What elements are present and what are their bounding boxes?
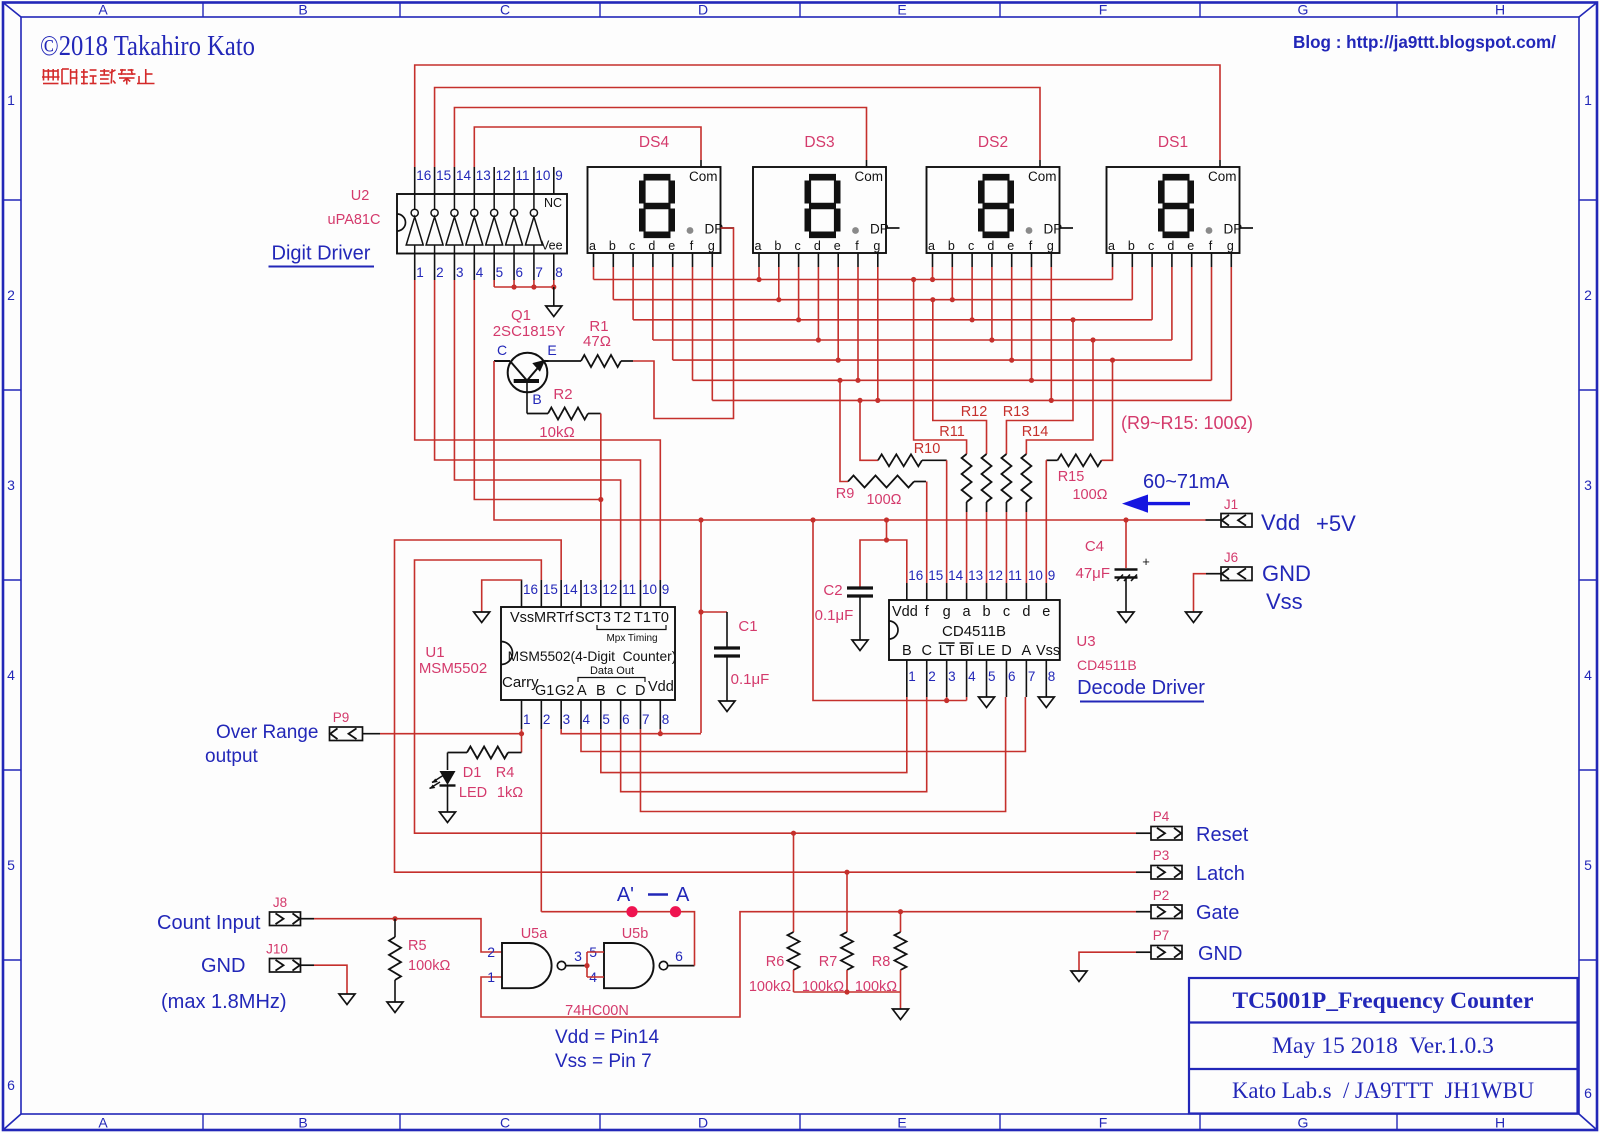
svg-text:5: 5 [496, 265, 504, 280]
junction dots on Vdd rail [698, 517, 1128, 522]
svg-text:Vdd: Vdd [648, 679, 674, 695]
wire data C: U1 pin6 to U3 pin2 [621, 697, 927, 792]
wire P7 to ground [1071, 952, 1136, 981]
wire U2 pin 15 to DS2 Com [435, 88, 1040, 168]
svg-text:Digit Driver: Digit Driver [272, 243, 371, 265]
svg-text:T0: T0 [652, 610, 669, 626]
svg-text:e: e [668, 239, 675, 253]
connector J1 Vdd [1206, 497, 1253, 527]
svg-text:U3: U3 [1076, 633, 1095, 650]
transistor Q1 2SC1815Y [494, 353, 549, 414]
IC U1 MSM5502 4-digit counter [501, 607, 676, 700]
resistor R15 100ohm (e) [1046, 360, 1112, 503]
svg-text:U5b: U5b [622, 926, 649, 942]
svg-text:A: A [577, 683, 587, 699]
svg-text:9: 9 [555, 168, 563, 183]
svg-text:Vee: Vee [541, 239, 563, 253]
svg-text:D: D [698, 1115, 708, 1131]
svg-text:16: 16 [416, 168, 431, 183]
wire Vdd rail to LT/BI bus [813, 520, 967, 703]
resistor R10 100ohm (g) [860, 400, 947, 466]
segment bus b [613, 297, 1132, 302]
svg-text:P2: P2 [1153, 888, 1170, 903]
svg-text:d: d [814, 239, 821, 253]
7-segment display DS3 [753, 134, 900, 253]
svg-text:LT: LT [939, 643, 955, 659]
capacitor C4 47uF electrolytic [1076, 520, 1150, 612]
svg-text:GND: GND [201, 955, 245, 977]
wire P9 to U1 carry [380, 729, 524, 753]
svg-text:16: 16 [908, 568, 923, 583]
svg-text:11: 11 [516, 168, 530, 183]
svg-text:14: 14 [456, 168, 472, 183]
svg-text:a: a [1108, 239, 1115, 253]
svg-text:+: + [1142, 554, 1150, 569]
svg-text:B: B [596, 683, 606, 699]
wire U2 pin 14 to DS3 Com [454, 108, 866, 168]
title block [1189, 978, 1578, 1114]
IC U3 CD4511B decode driver [889, 600, 1060, 660]
wires DS4 pins to segment bus [594, 267, 713, 400]
svg-text:J6: J6 [1224, 550, 1238, 565]
svg-text:a: a [755, 239, 762, 253]
wire U2 pin 16 to DS1 Com [415, 65, 1220, 167]
svg-text:U5a: U5a [521, 926, 549, 942]
svg-text:R14: R14 [1022, 424, 1049, 440]
segment bus f [693, 378, 1212, 383]
svg-text:J10: J10 [266, 942, 288, 957]
svg-text:9: 9 [662, 582, 670, 597]
svg-text:8: 8 [662, 712, 670, 727]
svg-text:5: 5 [7, 857, 15, 873]
svg-text:Blog : http://ja9ttt.blogspot.: Blog : http://ja9ttt.blogspot.com/ [1293, 32, 1556, 52]
svg-text:R5: R5 [408, 938, 427, 954]
ground at U3 LE pin5 [979, 697, 995, 708]
svg-text:A': A' [617, 884, 634, 906]
svg-text:DS3: DS3 [804, 134, 834, 151]
svg-text:3: 3 [456, 265, 464, 280]
svg-text:6: 6 [675, 948, 683, 964]
svg-text:3: 3 [563, 712, 571, 727]
svg-text:10: 10 [535, 168, 550, 183]
wire U1 G2 + Vdd pin to Vdd net [561, 729, 701, 736]
svg-text:DP: DP [1224, 222, 1243, 237]
svg-text:7: 7 [535, 265, 543, 280]
svg-text:b: b [982, 604, 990, 620]
GND label (J10) [201, 955, 245, 977]
svg-text:R2: R2 [553, 386, 572, 403]
svg-text:Latch: Latch [1196, 863, 1245, 885]
svg-text:d: d [987, 239, 994, 253]
svg-text:C1: C1 [738, 618, 757, 635]
svg-text:U2: U2 [351, 188, 370, 204]
svg-text:D: D [635, 683, 645, 699]
capacitor C2 0.1uF [815, 582, 873, 640]
svg-text:13: 13 [968, 568, 983, 583]
svg-text:2SC1815Y: 2SC1815Y [493, 323, 566, 340]
wire U2 pin3 to U1 T2 [454, 280, 620, 580]
svg-text:R4: R4 [496, 765, 515, 781]
segment bus e [673, 358, 1192, 363]
ground at C2 [852, 640, 868, 651]
svg-text:A: A [98, 2, 108, 18]
svg-text:R10: R10 [914, 441, 941, 457]
svg-text:A: A [1022, 643, 1032, 659]
wire R11 to U3 a [966, 512, 968, 583]
resistor R7 100k (latch) [802, 872, 853, 995]
U1 pin stubs and numbers [522, 580, 670, 729]
svg-text:12: 12 [602, 582, 617, 597]
resistor R12 100ohm (b) [933, 300, 992, 512]
svg-text:C: C [500, 1115, 510, 1131]
svg-text:g: g [873, 239, 880, 253]
svg-text:15: 15 [928, 568, 943, 583]
svg-text:C2: C2 [823, 582, 842, 599]
svg-text:DS4: DS4 [639, 134, 670, 151]
svg-text:A: A [676, 884, 690, 906]
svg-text:CD4511B: CD4511B [942, 623, 1006, 640]
segment bus g [712, 398, 1231, 403]
connector P2 Gate [1136, 888, 1239, 924]
svg-text:D1: D1 [463, 765, 482, 781]
DS4 segment pin stubs [594, 253, 713, 267]
wire U2 pin1 to U1 T0 [415, 280, 661, 580]
svg-text:4: 4 [7, 667, 15, 683]
svg-text:a: a [928, 239, 935, 253]
svg-text:SC: SC [575, 610, 595, 626]
svg-text:Vss: Vss [510, 610, 534, 626]
resistor R5 100k (count input) [389, 919, 450, 1002]
blog url text [1293, 32, 1556, 52]
svg-text:14: 14 [948, 568, 964, 583]
svg-text:G1: G1 [535, 683, 554, 699]
svg-text:BI: BI [960, 643, 974, 659]
svg-text:f: f [690, 239, 694, 253]
U3 pin stubs and numbers [907, 568, 1056, 697]
svg-text:3: 3 [1584, 477, 1592, 493]
svg-text:2: 2 [928, 669, 936, 684]
wire R14 to U3 d [1025, 512, 1027, 583]
svg-text:Gate: Gate [1196, 902, 1239, 924]
svg-text:g: g [708, 239, 715, 253]
Vdd Vss pin note [555, 1027, 659, 1072]
svg-text:1: 1 [908, 669, 916, 684]
svg-text:d: d [1022, 604, 1030, 620]
copyright text [40, 31, 255, 62]
svg-text:H: H [1495, 2, 1505, 18]
svg-text:Vdd: Vdd [1261, 510, 1300, 535]
svg-text:T3: T3 [594, 610, 611, 626]
svg-text:G: G [1298, 2, 1309, 18]
max 1.8MHz label [161, 991, 287, 1013]
svg-text:P7: P7 [1153, 928, 1170, 943]
svg-text:2: 2 [1584, 287, 1592, 303]
svg-text:May 15 2018 Ver.1.0.3: May 15 2018 Ver.1.0.3 [1272, 1033, 1494, 1058]
LED D1 [430, 765, 488, 812]
svg-text:J1: J1 [1224, 497, 1238, 512]
svg-text:Com: Com [1028, 169, 1057, 184]
ground at C1 [719, 701, 735, 712]
svg-text:F: F [1099, 2, 1108, 18]
svg-text:47Ω: 47Ω [583, 333, 611, 350]
svg-text:12: 12 [496, 168, 511, 183]
U1 Vss pin16 to ground [474, 580, 522, 623]
NAND gate U5b [589, 926, 694, 988]
svg-text:13: 13 [476, 168, 491, 183]
connector J8 count input [270, 895, 315, 926]
svg-text:6: 6 [516, 265, 524, 280]
svg-text:11: 11 [622, 582, 636, 597]
svg-text:4: 4 [476, 265, 484, 280]
wire Gate line to U5a input1 [481, 909, 1136, 1017]
U2 pin stubs and numbers [415, 167, 563, 280]
DS2 segment pin stubs [933, 253, 1052, 267]
wire U5b out to A jumper to U1 G1 [541, 729, 694, 966]
svg-text:P4: P4 [1153, 809, 1170, 824]
Vdd +5V labels [1261, 510, 1356, 536]
svg-text:0.1μF: 0.1μF [731, 671, 770, 688]
svg-text:+5V: +5V [1316, 511, 1356, 536]
svg-text:Vdd: Vdd [892, 604, 918, 620]
NAND gate U5a [487, 926, 587, 988]
svg-text:10kΩ: 10kΩ [539, 424, 574, 441]
ground at J6 [1186, 612, 1202, 623]
connector J10 GND [266, 942, 314, 973]
resistor R13 100ohm (c) [1001, 320, 1073, 512]
wire R12 to U3 b [986, 512, 988, 583]
svg-text:5: 5 [602, 712, 610, 727]
svg-text:R7: R7 [819, 954, 838, 970]
svg-text:14: 14 [563, 582, 579, 597]
svg-text:D: D [1001, 643, 1011, 659]
ground at D1 [440, 812, 456, 823]
wire data D: U1 pin7 to U3 pin6 [640, 697, 1005, 812]
svg-text:2: 2 [7, 287, 15, 303]
wire Reset line to U1 MR [415, 560, 1137, 836]
no-reproduction (CJK) red text approximated [42, 69, 155, 85]
svg-text:NC: NC [544, 196, 562, 210]
svg-text:MSM5502: MSM5502 [419, 660, 487, 677]
wire R1 to DS4 DP [633, 228, 734, 419]
7-segment display DS2 [927, 134, 1074, 253]
svg-text:(R9~R15: 100Ω): (R9~R15: 100Ω) [1121, 413, 1253, 433]
svg-text:1: 1 [1584, 92, 1592, 108]
U3 labels [1076, 633, 1136, 673]
current annotation 60~71mA with arrow [1122, 471, 1230, 513]
svg-text:Q1: Q1 [511, 307, 531, 324]
svg-text:d: d [648, 239, 655, 253]
svg-text:R8: R8 [872, 954, 891, 970]
svg-text:2: 2 [436, 265, 444, 280]
svg-text:DP: DP [1044, 222, 1063, 237]
svg-text:H: H [1495, 1115, 1505, 1131]
svg-text:10: 10 [642, 582, 657, 597]
resistor R1 47ohm [549, 318, 634, 367]
svg-text:0.1μF: 0.1μF [815, 607, 854, 624]
resistor R9 100ohm (f) [836, 380, 926, 508]
svg-text:e: e [1042, 604, 1050, 620]
wire U2 pin4 to U1 T3 junction [474, 280, 603, 502]
svg-text:Count Input: Count Input [157, 912, 261, 934]
svg-text:R11: R11 [939, 424, 965, 440]
svg-text:E: E [897, 1115, 906, 1131]
Count Input label [157, 912, 261, 934]
svg-text:c: c [794, 239, 800, 253]
svg-text:c: c [629, 239, 635, 253]
svg-text:5: 5 [1584, 857, 1592, 873]
svg-text:C: C [616, 683, 626, 699]
U2 pins 5-8 ground bus [494, 280, 556, 306]
svg-text:7: 7 [642, 712, 650, 727]
wire U2 pin 13 to DS4 Com [474, 127, 701, 167]
wires DS2 pins to segment bus [933, 267, 1052, 400]
segment bus c [633, 317, 1152, 322]
connector P9 over range [330, 710, 381, 741]
svg-text:G2: G2 [555, 683, 574, 699]
svg-text:e: e [1187, 239, 1194, 253]
svg-text:Over Range: Over Range [216, 722, 318, 743]
resistor R4 1kohm [448, 747, 524, 802]
resistor R8 100k (gate) [855, 912, 907, 995]
svg-text:Decode Driver: Decode Driver [1077, 677, 1205, 699]
svg-text:R6: R6 [766, 954, 785, 970]
svg-text:Vss: Vss [1266, 589, 1303, 614]
svg-text:R15: R15 [1058, 469, 1085, 485]
resistor R11 100ohm (a) [914, 280, 972, 513]
wire Vdd rail to C2 and U3 Vdd [860, 520, 907, 588]
connector P4 Reset [1136, 809, 1249, 846]
R6 R7 R8 ground bus [794, 989, 909, 1019]
resistor R14 100ohm (d) [1021, 340, 1093, 512]
svg-text:4: 4 [1584, 667, 1592, 683]
svg-text:Com: Com [855, 169, 884, 184]
svg-text:DP: DP [870, 222, 889, 237]
svg-text:6: 6 [622, 712, 630, 727]
svg-text:Reset: Reset [1196, 824, 1249, 846]
wire R10 to U3 g [946, 460, 948, 583]
svg-text:100kΩ: 100kΩ [749, 979, 791, 995]
wire data A: U1 pin4 to U3 pin7 [581, 697, 1025, 752]
svg-text:1: 1 [523, 712, 531, 727]
7-segment display DS1 [1107, 134, 1254, 253]
ground at U3 Vss pin8 [1038, 697, 1054, 708]
svg-text:Com: Com [1208, 169, 1237, 184]
svg-text:uPA81C: uPA81C [328, 212, 381, 228]
jumper points A' and A [617, 884, 690, 917]
wire U2 pin2 to U1 T1 [435, 280, 641, 580]
DS3 segment pin stubs [759, 253, 878, 267]
connector P3 Latch [1136, 848, 1245, 885]
U2 labels [328, 188, 381, 228]
svg-text:A: A [98, 1115, 108, 1131]
svg-text:e: e [1007, 239, 1014, 253]
ground at R5 [387, 1002, 403, 1013]
connector J6 GND [1194, 550, 1253, 612]
svg-text:1: 1 [487, 969, 495, 985]
svg-text:2: 2 [543, 712, 551, 727]
svg-text:1: 1 [416, 265, 424, 280]
resistor R2 10kohm [527, 386, 601, 441]
svg-text:1kΩ: 1kΩ [497, 785, 523, 801]
segment bus a [594, 277, 1113, 282]
R9-R15 note [1121, 413, 1253, 433]
svg-text:100Ω: 100Ω [866, 492, 901, 508]
svg-text:b: b [948, 239, 955, 253]
svg-text:8: 8 [555, 265, 563, 280]
svg-text:9: 9 [1048, 568, 1056, 583]
svg-text:a: a [963, 604, 972, 620]
svg-text:R12: R12 [961, 404, 988, 420]
wire R9 to U3 f [926, 482, 928, 584]
ground at C4 [1118, 612, 1134, 623]
DS1 segment pin stubs [1113, 253, 1232, 267]
svg-text:12: 12 [988, 568, 1003, 583]
74HC00N label [565, 1003, 629, 1019]
svg-text:GND: GND [1198, 943, 1242, 965]
svg-text:d: d [1167, 239, 1174, 253]
svg-text:5: 5 [988, 669, 996, 684]
wire R15 to U3 e [1045, 460, 1047, 583]
svg-text:c: c [1148, 239, 1154, 253]
svg-text:3: 3 [7, 477, 15, 493]
svg-text:MRTrf: MRTrf [534, 610, 574, 626]
svg-text:F: F [1099, 1115, 1108, 1131]
svg-text:R13: R13 [1003, 404, 1030, 420]
capacitor C1 0.1uF [701, 612, 769, 701]
svg-text:f: f [1209, 239, 1213, 253]
wire Vdd rail to C1 and U1 Vdd/G2 bus [698, 520, 703, 733]
svg-text:GND: GND [1262, 561, 1311, 586]
svg-text:10: 10 [1028, 568, 1043, 583]
segment bus d [653, 337, 1172, 342]
wires DS1 pins to segment bus [1113, 267, 1232, 400]
ground at U2 pin 8 [546, 306, 562, 317]
svg-text:a: a [589, 239, 596, 253]
svg-text:©2018 Takahiro Kato: ©2018 Takahiro Kato [40, 31, 255, 62]
svg-text:16: 16 [523, 582, 538, 597]
svg-text:3: 3 [574, 948, 582, 964]
Over Range output label [205, 722, 318, 767]
svg-text:B: B [532, 391, 541, 407]
svg-text:B: B [298, 1115, 307, 1131]
svg-text:g: g [943, 604, 951, 620]
svg-text:B: B [902, 643, 912, 659]
svg-text:e: e [834, 239, 841, 253]
svg-text:2: 2 [487, 944, 495, 960]
Decode Driver caption [1077, 677, 1205, 702]
svg-text:6: 6 [1584, 1085, 1592, 1101]
Digit Driver caption [269, 243, 375, 267]
svg-text:15: 15 [436, 168, 451, 183]
svg-text:G: G [1298, 1115, 1309, 1131]
svg-text:P3: P3 [1153, 848, 1170, 863]
svg-text:DS2: DS2 [978, 134, 1008, 151]
svg-text:8: 8 [1048, 669, 1056, 684]
svg-text:C: C [921, 643, 931, 659]
IC U2 uPA81C digit driver [397, 194, 567, 254]
svg-text:Data Out: Data Out [590, 665, 634, 677]
svg-text:DS1: DS1 [1158, 134, 1188, 151]
wires DS3 pins to segment bus [759, 267, 878, 400]
svg-text:f: f [855, 239, 859, 253]
svg-text:11: 11 [1008, 568, 1022, 583]
svg-text:4: 4 [582, 712, 590, 727]
svg-text:7: 7 [1028, 669, 1036, 684]
svg-text:LED: LED [459, 785, 487, 801]
svg-text:Kato Lab.s / JA9TTT JH1WBU: Kato Lab.s / JA9TTT JH1WBU [1232, 1078, 1534, 1103]
svg-text:TC5001P_Frequency Counter: TC5001P_Frequency Counter [1233, 988, 1534, 1013]
svg-text:U1: U1 [425, 644, 444, 661]
